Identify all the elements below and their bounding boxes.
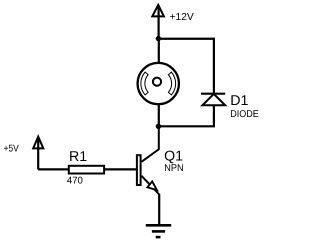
svg-text:D1: D1 [230, 93, 248, 109]
svg-text:NPN: NPN [164, 163, 183, 174]
wire diode bottom to junction [159, 105, 214, 126]
label R1 [69, 149, 87, 165]
svg-text:R1: R1 [69, 149, 87, 165]
wire junction to collector of Q1 [142, 126, 159, 162]
wire junction to motor top [158, 39, 160, 64]
svg-text:+12V: +12V [170, 12, 194, 23]
label +12V [170, 12, 194, 23]
wire motor bottom to junction [158, 104, 160, 126]
motor M1 [138, 63, 179, 104]
transistor Q1 base bar [137, 155, 141, 185]
label NPN [164, 163, 183, 174]
node junction bottom [156, 124, 161, 129]
label +5V [4, 144, 20, 155]
ground [146, 225, 171, 237]
wire emitter to ground [158, 194, 160, 226]
power symbol +12V arrow [152, 5, 164, 39]
label Q1 [164, 149, 183, 165]
label D1 [230, 93, 248, 109]
node junction top [156, 36, 161, 41]
svg-text:DIODE: DIODE [230, 109, 259, 120]
resistor R1 [69, 166, 104, 174]
label DIODE [230, 109, 259, 120]
svg-text:470: 470 [67, 176, 84, 187]
transistor Q1 emitter with arrow [142, 176, 160, 195]
wire resistor to base of Q1 [105, 168, 136, 170]
diode D1 [201, 94, 225, 106]
wire +5V to resistor [38, 168, 68, 170]
svg-text:+5V: +5V [4, 144, 20, 155]
power symbol +5V arrow [33, 137, 43, 170]
label 470 [67, 176, 84, 187]
wire junction to diode top [159, 39, 214, 93]
